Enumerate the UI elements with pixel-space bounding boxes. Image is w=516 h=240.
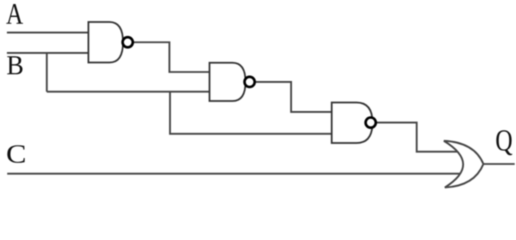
wire U1 output to U2 input <box>128 42 211 72</box>
label A <box>6 4 23 24</box>
nand gate U1 <box>88 22 123 63</box>
wire B to U2 input <box>47 91 211 93</box>
nand gate U2 <box>210 63 246 101</box>
bubble U2 <box>245 77 255 87</box>
wire B branch down <box>46 53 48 92</box>
nand gate U3 <box>332 103 373 144</box>
label C <box>7 145 24 163</box>
bubble U3 <box>366 118 376 128</box>
or gate U4 <box>444 141 484 188</box>
bubble U1 <box>123 37 133 47</box>
wire C input <box>7 173 461 175</box>
wire U3 output to OR gate <box>371 123 459 152</box>
wire A input <box>7 32 90 34</box>
label B <box>7 56 22 74</box>
wire U2 output to U3 input <box>250 82 333 112</box>
label Q <box>496 130 512 155</box>
wire B branch to U3 input <box>170 92 333 134</box>
wire B input <box>7 52 90 54</box>
wire Q output <box>479 163 515 165</box>
